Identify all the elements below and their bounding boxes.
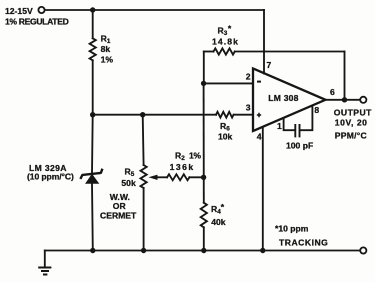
wire: R1 bottom lead to reference node: [92, 60, 94, 114]
wire: R1 top lead: [92, 10, 94, 38]
svg-text:14.8k: 14.8k: [212, 37, 239, 47]
svg-text:10k: 10k: [218, 131, 233, 141]
svg-text:3: 3: [246, 102, 251, 112]
label: R5 value: [121, 166, 136, 188]
wire: feedback drop to output node: [344, 52, 346, 100]
zener diode LM 329A: [81, 170, 102, 184]
svg-text:8k: 8k: [101, 44, 111, 54]
wire: R3 left feed: [204, 51, 214, 53]
resistor R6 10k: [216, 112, 234, 118]
pin 4: [257, 131, 262, 141]
svg-text:*10 ppm: *10 ppm: [275, 223, 309, 233]
op-amp plus input marker: [257, 113, 261, 117]
wire: divider branch (inverting node down to R4): [203, 83, 205, 202]
pin 1: [277, 121, 282, 131]
svg-text:R5: R5: [125, 166, 135, 178]
capacitor C1 100 pF: [295, 125, 299, 136]
wire: Rs to pin 3: [234, 114, 253, 116]
svg-text:LM 308: LM 308: [268, 93, 298, 103]
svg-text:OUTPUT: OUTPUT: [334, 108, 372, 118]
label: LM 308: [268, 93, 298, 103]
pin 6: [330, 87, 335, 97]
potentiometer R5 50k: [141, 165, 147, 188]
op-amp U1 LM 308: [253, 69, 326, 132]
label: R1 value: [101, 33, 114, 64]
label: R4 value: [211, 202, 226, 227]
wire: R4 bottom lead to ground rail: [203, 227, 205, 250]
node: output junction: [342, 97, 347, 102]
svg-text:2: 2: [246, 72, 251, 82]
node: R2/divider junction: [201, 175, 206, 180]
svg-text:12-15V: 12-15V: [5, 6, 33, 16]
wire: zener top lead: [91, 115, 94, 174]
node: inverting input node: [201, 81, 206, 86]
wire: top supply rail: [45, 9, 265, 11]
pin 7: [267, 60, 272, 70]
node: supply/R1 junction: [90, 7, 95, 12]
svg-text:CERMET: CERMET: [100, 210, 137, 220]
wire: R3 left lead down to inverting node: [203, 52, 205, 84]
resistor R4* 40k: [201, 203, 207, 228]
label: W.W. OR CERMET: [100, 192, 137, 220]
node: R5 top tap on input line: [140, 112, 145, 117]
svg-text:R4*: R4*: [211, 202, 225, 216]
label: *10 ppm TRACKING: [275, 223, 328, 247]
label: R2 value: [170, 150, 202, 172]
svg-text:1% REGULATED: 1% REGULATED: [5, 17, 69, 27]
node: zener/ground junction: [90, 248, 95, 253]
svg-text:1: 1: [277, 121, 282, 131]
wire: non-inverting input line (reference to Rs): [93, 114, 216, 116]
wire: R5 bottom lead to ground rail: [143, 188, 145, 251]
svg-text:1%: 1%: [101, 54, 114, 64]
terminal: output: [360, 97, 366, 103]
wire: V+ drop to pin 7: [263, 10, 265, 74]
label: 1% REGULATED: [5, 17, 69, 27]
pin 3: [246, 102, 251, 112]
svg-text:PPM/°C: PPM/°C: [335, 131, 367, 141]
resistor R2 136k 1%: [167, 174, 189, 180]
label: R3 value: [212, 23, 239, 46]
svg-text:R2: R2: [175, 150, 185, 162]
svg-text:136k: 136k: [170, 162, 195, 172]
node: pin4/ground junction: [260, 248, 265, 253]
svg-text:(10 ppm/°C): (10 ppm/°C): [27, 172, 74, 182]
svg-text:50k: 50k: [121, 178, 136, 188]
svg-text:8: 8: [314, 105, 319, 115]
wire: R3 right lead across to output branch: [235, 51, 345, 53]
label: LM 329A: [27, 163, 74, 181]
label: R6 value: [218, 121, 233, 142]
pin 8: [314, 105, 319, 115]
wire: R5 top lead: [142, 115, 145, 165]
wire: output lead: [326, 99, 361, 101]
node: R5/ground junction: [141, 248, 146, 253]
svg-text:10V, 20: 10V, 20: [335, 117, 368, 127]
node: reference node (R1/zener/divider): [90, 112, 95, 117]
terminal: 12-15V input: [38, 7, 44, 13]
node: R4/ground junction: [201, 248, 206, 253]
terminal: ground return: [360, 247, 366, 253]
label: OUTPUT 10V, 20 PPM/C: [334, 108, 372, 141]
wire: ground rail: [45, 250, 360, 252]
svg-text:R3*: R3*: [218, 23, 232, 37]
label: 12-15V: [5, 6, 33, 16]
pin 4 lead to ground rail: [262, 127, 264, 251]
wire: inverting node to pin 2: [204, 82, 253, 84]
svg-text:40k: 40k: [211, 217, 226, 227]
svg-text:100 pF: 100 pF: [286, 140, 313, 150]
op-amp minus input marker: [257, 81, 261, 83]
resistor R1 8k 1%: [90, 38, 96, 60]
svg-text:4: 4: [257, 131, 262, 141]
label: 100 pF: [286, 140, 313, 150]
ground: [39, 251, 50, 275]
wiper arrow of R5 into R2: [149, 175, 168, 180]
svg-text:TRACKING: TRACKING: [279, 237, 328, 247]
wire: pin 1 lead: [284, 119, 295, 130]
wire: R2 to summing branch: [189, 176, 203, 178]
wire: pin 8 lead: [301, 107, 313, 130]
svg-text:1%: 1%: [189, 150, 201, 160]
svg-text:7: 7: [267, 60, 272, 70]
pin 2: [246, 72, 251, 82]
resistor R3* 14.8k: [214, 48, 235, 54]
wire: zener bottom lead to ground rail: [91, 183, 94, 250]
svg-text:6: 6: [330, 87, 335, 97]
